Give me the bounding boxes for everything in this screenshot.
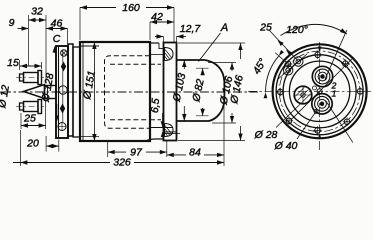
svg-text:20: 20 (26, 138, 39, 150)
svg-text:C: C (53, 33, 61, 45)
svg-text:25: 25 (259, 22, 272, 34)
svg-text:120°: 120° (286, 24, 308, 36)
svg-text:97: 97 (130, 147, 143, 159)
svg-text:12,7: 12,7 (180, 23, 202, 35)
svg-text:160: 160 (122, 2, 140, 14)
svg-text:32: 32 (31, 6, 43, 18)
svg-text:1: 1 (332, 89, 337, 99)
svg-text:84: 84 (189, 147, 201, 159)
svg-text:Ø 40: Ø 40 (274, 140, 298, 152)
svg-text:326: 326 (113, 157, 131, 169)
svg-text:15: 15 (7, 57, 19, 69)
svg-text:9: 9 (9, 17, 15, 29)
svg-text:25: 25 (23, 113, 36, 125)
svg-text:6,5: 6,5 (149, 98, 162, 114)
svg-text:A: A (220, 22, 228, 34)
